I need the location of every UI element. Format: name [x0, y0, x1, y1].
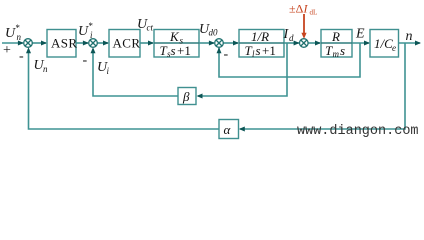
svg-text:1/R: 1/R — [251, 29, 269, 44]
arrow left into alpha box — [239, 127, 245, 132]
svg-text:+1: +1 — [262, 43, 276, 58]
svg-text:s: s — [340, 43, 345, 58]
svg-text:www.diangon.com: www.diangon.com — [297, 124, 419, 139]
svg-text:d0: d0 — [209, 28, 219, 38]
svg-text:m: m — [333, 49, 340, 59]
arrow into R/Tm block — [315, 41, 321, 46]
label Ui* — [78, 21, 93, 40]
wire speed feedback: n tap down and left to alpha — [240, 43, 405, 129]
svg-text:±Δ: ±Δ — [289, 2, 304, 16]
wire J4 to R/Tm block — [308, 42, 320, 44]
arrow into J1 — [18, 41, 24, 46]
svg-text:-: - — [83, 53, 88, 68]
summing junction J2 — [89, 39, 98, 48]
svg-text:e: e — [392, 43, 396, 53]
wire ACR to Ks block — [140, 42, 153, 44]
arrow into ASR — [41, 41, 47, 46]
label Id — [283, 27, 295, 43]
arrow up into J3 from EMF loop — [217, 47, 222, 53]
wire alpha output left and up to J1 — [29, 49, 220, 129]
arrow into 1/Ce block — [364, 41, 370, 46]
block beta — [178, 88, 196, 105]
summing junction J1 — [24, 39, 33, 48]
label Un feedback — [34, 58, 49, 74]
svg-text:+1: +1 — [177, 43, 191, 58]
wire input to J1 — [2, 42, 23, 44]
svg-text:α: α — [224, 122, 232, 137]
svg-text:E: E — [355, 27, 365, 42]
svg-text:ACR: ACR — [113, 36, 141, 51]
svg-text:dL: dL — [310, 9, 318, 17]
svg-text:s: s — [256, 43, 261, 58]
arrow into 1/R block — [233, 41, 239, 46]
wire R/Tm block to 1/Ce block — [352, 42, 369, 44]
svg-text:1/C: 1/C — [374, 36, 393, 51]
svg-text:s: s — [171, 43, 176, 58]
block ASR — [47, 30, 78, 58]
label Ui feedback — [97, 60, 110, 76]
block 1/R over (Tl s+1) — [239, 29, 284, 59]
arrowheads dark teal — [18, 41, 421, 132]
arrow into ACR — [103, 41, 109, 46]
summing junction J4 — [300, 39, 309, 48]
svg-text:R: R — [331, 29, 340, 44]
svg-text:β: β — [182, 89, 190, 104]
wire current feedback: Id tap down and left to beta — [198, 43, 287, 96]
summing junction J3 — [215, 39, 224, 48]
svg-text:-: - — [19, 49, 24, 64]
svg-text:ASR: ASR — [51, 36, 78, 51]
wire 1/R block to J4 — [284, 42, 299, 44]
red disturbance arrow into J4 — [303, 14, 305, 37]
block Ks/(Ts s+1) — [154, 29, 199, 59]
svg-text:ct: ct — [147, 23, 154, 33]
arrow left into beta box — [197, 94, 203, 99]
arrow into Ks block — [148, 41, 154, 46]
svg-text:K: K — [169, 29, 180, 44]
arrow up into J2 from beta — [91, 47, 96, 53]
svg-text:-: - — [224, 47, 229, 62]
arrow into J3 — [209, 41, 215, 46]
wire J1 to ASR — [32, 42, 46, 44]
arrow into J2 — [83, 41, 89, 46]
wire J3 to 1/R block — [223, 42, 238, 44]
arrow into J4 — [294, 41, 300, 46]
label Un* input — [5, 23, 22, 42]
wire ASR to J2 — [76, 42, 88, 44]
svg-text:n: n — [17, 32, 22, 42]
wire beta output left and up to J2 — [93, 49, 178, 96]
wire EMF feedback: E tap down, left, up to J3 — [219, 43, 360, 77]
svg-text:n: n — [406, 29, 413, 44]
svg-text:+: + — [3, 43, 11, 58]
block alpha — [219, 120, 239, 139]
block ACR — [109, 30, 140, 58]
wire 1/Ce output n — [399, 42, 421, 44]
wire J2 to ACR — [97, 42, 108, 44]
label Uct — [137, 17, 153, 33]
label Ud0 — [199, 22, 218, 38]
arrow up into J1 from alpha — [26, 47, 31, 53]
block 1/Ce — [370, 30, 399, 58]
wire Ks block to J3 — [199, 42, 214, 44]
svg-text:d: d — [289, 33, 294, 43]
svg-text:n: n — [43, 64, 48, 74]
block R/(Tm s) — [321, 29, 352, 59]
output arrow n — [415, 41, 421, 46]
red disturbance label ±ΔIdL — [289, 2, 317, 17]
